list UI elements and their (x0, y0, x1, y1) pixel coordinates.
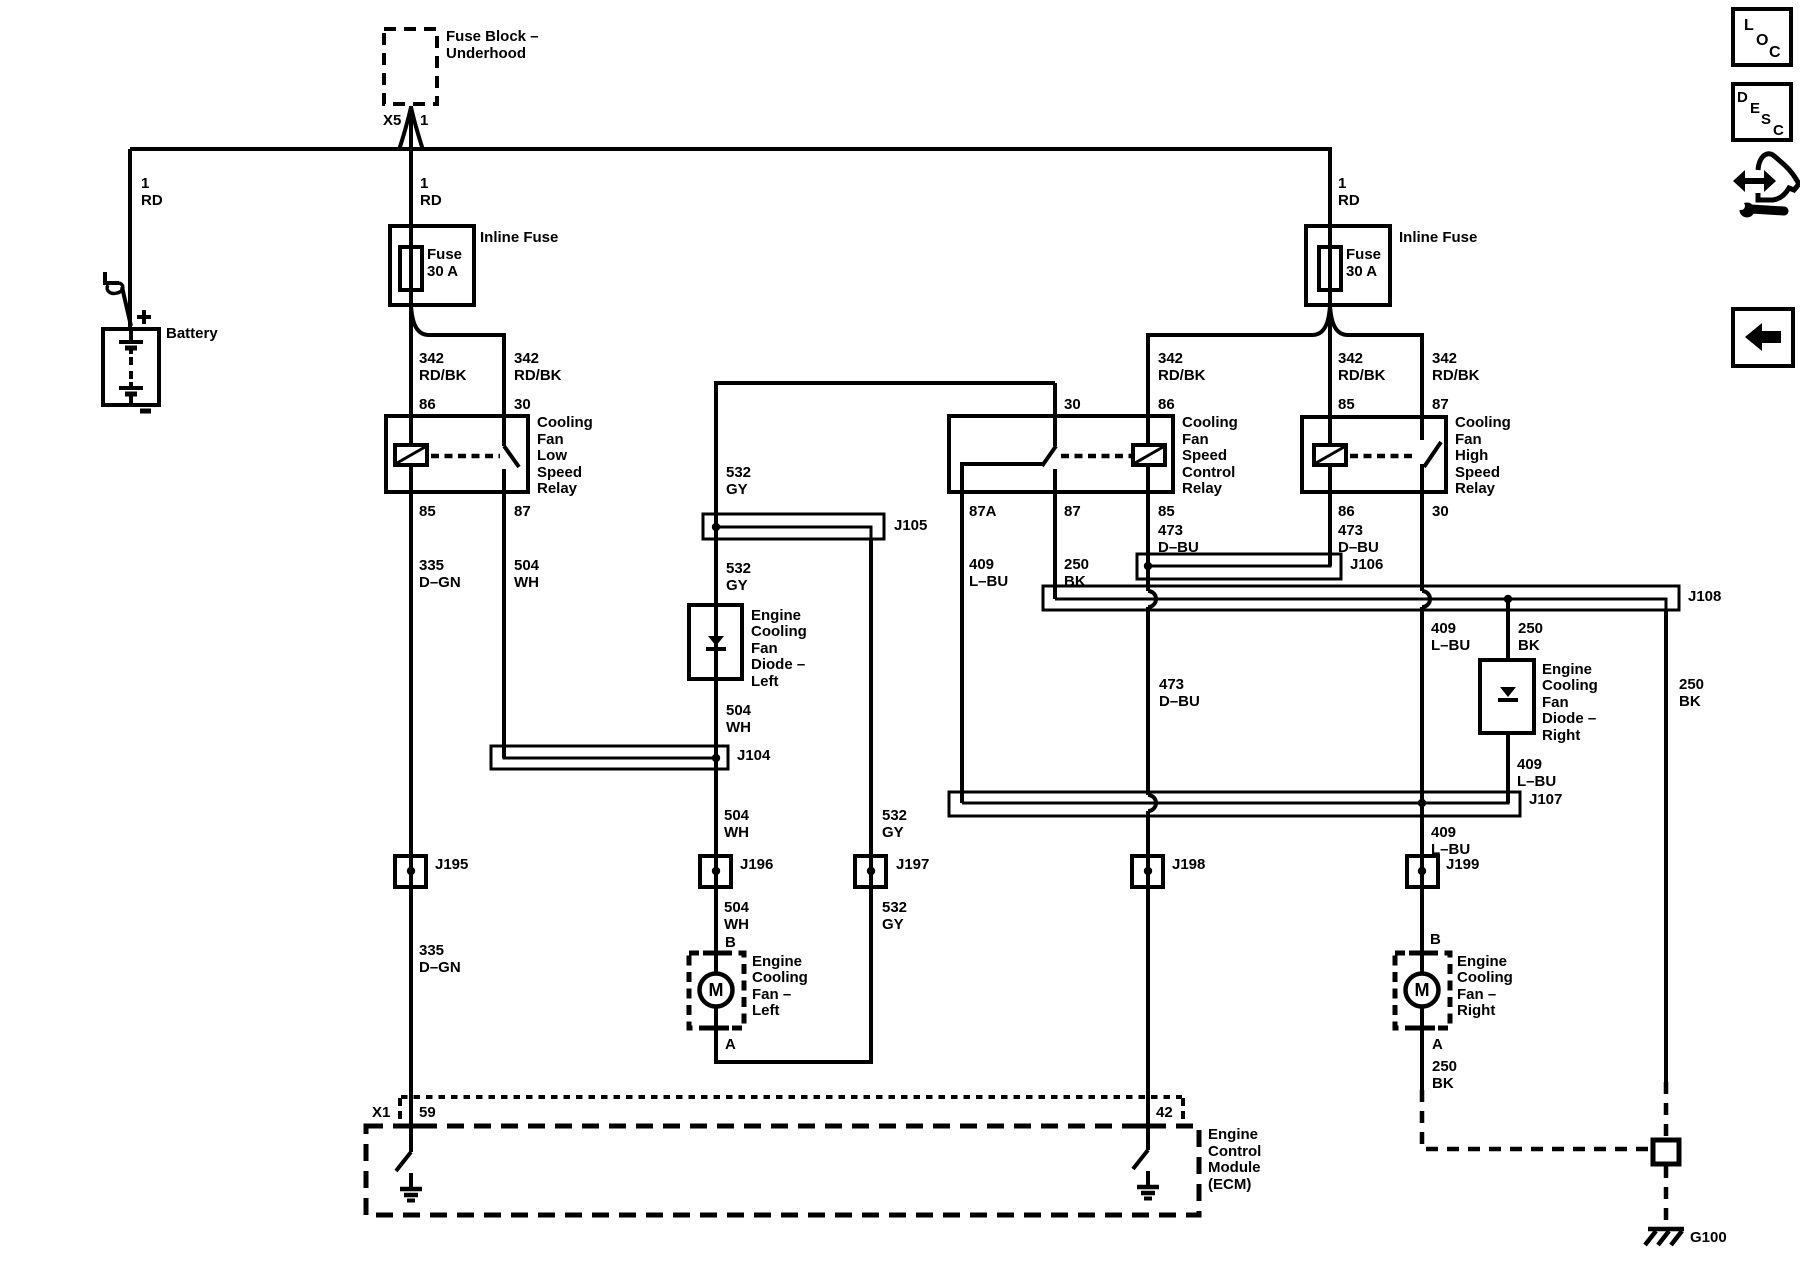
svg-text:GY: GY (882, 916, 904, 933)
svg-text:J195: J195 (435, 856, 468, 873)
svg-text:RD/BK: RD/BK (1338, 367, 1386, 384)
svg-text:86: 86 (1338, 503, 1355, 520)
svg-text:D–BU: D–BU (1159, 693, 1200, 710)
svg-text:342: 342 (1338, 350, 1363, 367)
svg-text:J105: J105 (894, 517, 927, 534)
svg-text:Engine: Engine (1542, 661, 1592, 678)
svg-text:504: 504 (726, 702, 752, 719)
svg-text:85: 85 (419, 503, 436, 520)
svg-text:87: 87 (1432, 396, 1449, 413)
svg-text:B: B (725, 934, 736, 951)
svg-text:1: 1 (420, 112, 428, 129)
svg-text:J198: J198 (1172, 856, 1205, 873)
svg-text:Inline Fuse: Inline Fuse (480, 229, 558, 246)
svg-text:Left: Left (752, 1002, 780, 1019)
svg-text:473: 473 (1158, 522, 1183, 539)
svg-text:Fan –: Fan – (1457, 986, 1496, 1003)
svg-text:Fan –: Fan – (752, 986, 791, 1003)
svg-text:RD: RD (1338, 192, 1360, 209)
svg-text:30 A: 30 A (427, 263, 458, 280)
svg-text:L–BU: L–BU (969, 573, 1008, 590)
svg-text:WH: WH (724, 824, 749, 841)
svg-text:J106: J106 (1350, 556, 1383, 573)
svg-text:C: C (1773, 122, 1784, 139)
svg-text:504: 504 (724, 899, 750, 916)
svg-text:C: C (1769, 44, 1781, 61)
svg-text:85: 85 (1158, 503, 1175, 520)
svg-text:L: L (1744, 17, 1754, 34)
svg-text:BK: BK (1064, 573, 1086, 590)
svg-text:250: 250 (1679, 676, 1704, 693)
svg-text:WH: WH (724, 916, 749, 933)
svg-text:342: 342 (1158, 350, 1183, 367)
svg-text:RD: RD (141, 192, 163, 209)
svg-text:BK: BK (1518, 637, 1540, 654)
svg-text:30: 30 (1064, 396, 1081, 413)
svg-text:BK: BK (1679, 693, 1701, 710)
svg-text:Control: Control (1208, 1143, 1261, 1160)
svg-text:342: 342 (514, 350, 539, 367)
svg-text:87A: 87A (969, 503, 997, 520)
svg-text:Engine: Engine (1457, 953, 1507, 970)
svg-text:J108: J108 (1688, 588, 1721, 605)
svg-text:BK: BK (1432, 1075, 1454, 1092)
svg-text:D: D (1737, 89, 1748, 106)
svg-text:L–BU: L–BU (1431, 841, 1470, 858)
svg-text:Speed: Speed (1455, 464, 1500, 481)
svg-text:Fan: Fan (537, 431, 564, 448)
svg-text:GY: GY (726, 481, 748, 498)
svg-text:Fan: Fan (751, 640, 778, 657)
svg-text:A: A (1432, 1036, 1443, 1053)
svg-text:250: 250 (1518, 620, 1543, 637)
svg-text:Underhood: Underhood (446, 45, 526, 62)
svg-text:Low: Low (537, 447, 567, 464)
svg-text:J196: J196 (740, 856, 773, 873)
svg-text:Engine: Engine (1208, 1126, 1258, 1143)
svg-text:532: 532 (726, 464, 751, 481)
svg-text:Control: Control (1182, 464, 1235, 481)
svg-text:532: 532 (726, 560, 751, 577)
svg-text:Diode –: Diode – (1542, 710, 1596, 727)
svg-text:O: O (1756, 32, 1768, 49)
svg-text:409: 409 (969, 556, 994, 573)
svg-text:Fan: Fan (1542, 694, 1569, 711)
svg-text:RD: RD (420, 192, 442, 209)
svg-text:Cooling: Cooling (751, 623, 807, 640)
svg-text:RD/BK: RD/BK (419, 367, 467, 384)
svg-text:30: 30 (1432, 503, 1449, 520)
svg-text:250: 250 (1064, 556, 1089, 573)
svg-text:Speed: Speed (1182, 447, 1227, 464)
svg-text:Cooling: Cooling (1455, 414, 1511, 431)
svg-text:L–BU: L–BU (1431, 637, 1470, 654)
svg-text:Fuse: Fuse (1346, 246, 1381, 263)
svg-text:Module: Module (1208, 1159, 1261, 1176)
svg-text:(ECM): (ECM) (1208, 1176, 1251, 1193)
svg-text:RD/BK: RD/BK (1432, 367, 1480, 384)
svg-text:Relay: Relay (537, 480, 578, 497)
svg-text:30 A: 30 A (1346, 263, 1377, 280)
svg-text:Cooling: Cooling (752, 969, 808, 986)
svg-text:D–GN: D–GN (419, 574, 461, 591)
svg-text:J199: J199 (1446, 856, 1479, 873)
svg-text:WH: WH (514, 574, 539, 591)
svg-text:Right: Right (1542, 727, 1580, 744)
svg-text:Relay: Relay (1182, 480, 1223, 497)
svg-text:1: 1 (1338, 175, 1346, 192)
svg-text:1: 1 (420, 175, 428, 192)
svg-text:504: 504 (724, 807, 750, 824)
svg-text:Cooling: Cooling (1457, 969, 1513, 986)
svg-text:409: 409 (1517, 756, 1542, 773)
svg-text:Speed: Speed (537, 464, 582, 481)
svg-text:Inline Fuse: Inline Fuse (1399, 229, 1477, 246)
svg-text:473: 473 (1159, 676, 1184, 693)
svg-text:Battery: Battery (166, 325, 218, 342)
svg-text:Cooling: Cooling (1542, 677, 1598, 694)
svg-text:GY: GY (882, 824, 904, 841)
svg-text:J107: J107 (1529, 791, 1562, 808)
svg-text:Fan: Fan (1455, 431, 1482, 448)
svg-text:RD/BK: RD/BK (514, 367, 562, 384)
svg-text:High: High (1455, 447, 1488, 464)
svg-text:Engine: Engine (752, 953, 802, 970)
svg-text:87: 87 (1064, 503, 1081, 520)
svg-text:Diode –: Diode – (751, 656, 805, 673)
svg-text:Fuse Block –: Fuse Block – (446, 28, 539, 45)
svg-text:87: 87 (514, 503, 531, 520)
svg-text:Fan: Fan (1182, 431, 1209, 448)
svg-text:M: M (1415, 980, 1430, 1000)
svg-text:Engine: Engine (751, 607, 801, 624)
svg-text:G100: G100 (1690, 1229, 1727, 1246)
svg-text:532: 532 (882, 807, 907, 824)
svg-text:86: 86 (1158, 396, 1175, 413)
svg-text:D–BU: D–BU (1338, 539, 1379, 556)
svg-text:X5: X5 (383, 112, 401, 129)
svg-text:J197: J197 (896, 856, 929, 873)
svg-text:409: 409 (1431, 620, 1456, 637)
svg-text:GY: GY (726, 577, 748, 594)
svg-text:Relay: Relay (1455, 480, 1496, 497)
svg-text:Left: Left (751, 673, 779, 690)
svg-text:335: 335 (419, 557, 444, 574)
svg-text:S: S (1761, 111, 1771, 128)
svg-text:X1: X1 (372, 1104, 390, 1121)
svg-text:342: 342 (419, 350, 444, 367)
svg-text:532: 532 (882, 899, 907, 916)
svg-text:L–BU: L–BU (1517, 773, 1556, 790)
svg-text:86: 86 (419, 396, 436, 413)
svg-text:85: 85 (1338, 396, 1355, 413)
svg-text:473: 473 (1338, 522, 1363, 539)
svg-text:J104: J104 (737, 747, 771, 764)
svg-text:A: A (725, 1036, 736, 1053)
svg-text:250: 250 (1432, 1058, 1457, 1075)
svg-text:Cooling: Cooling (537, 414, 593, 431)
svg-text:D–GN: D–GN (419, 959, 461, 976)
svg-text:59: 59 (419, 1104, 436, 1121)
svg-text:Cooling: Cooling (1182, 414, 1238, 431)
svg-text:M: M (709, 980, 724, 1000)
svg-text:30: 30 (514, 396, 531, 413)
svg-text:Right: Right (1457, 1002, 1495, 1019)
svg-text:Fuse: Fuse (427, 246, 462, 263)
svg-text:RD/BK: RD/BK (1158, 367, 1206, 384)
svg-text:B: B (1430, 931, 1441, 948)
svg-text:D–BU: D–BU (1158, 539, 1199, 556)
svg-text:342: 342 (1432, 350, 1457, 367)
svg-text:335: 335 (419, 942, 444, 959)
svg-text:WH: WH (726, 719, 751, 736)
svg-text:504: 504 (514, 557, 540, 574)
svg-text:1: 1 (141, 175, 149, 192)
svg-text:42: 42 (1156, 1104, 1173, 1121)
svg-text:409: 409 (1431, 824, 1456, 841)
svg-text:E: E (1750, 100, 1760, 117)
